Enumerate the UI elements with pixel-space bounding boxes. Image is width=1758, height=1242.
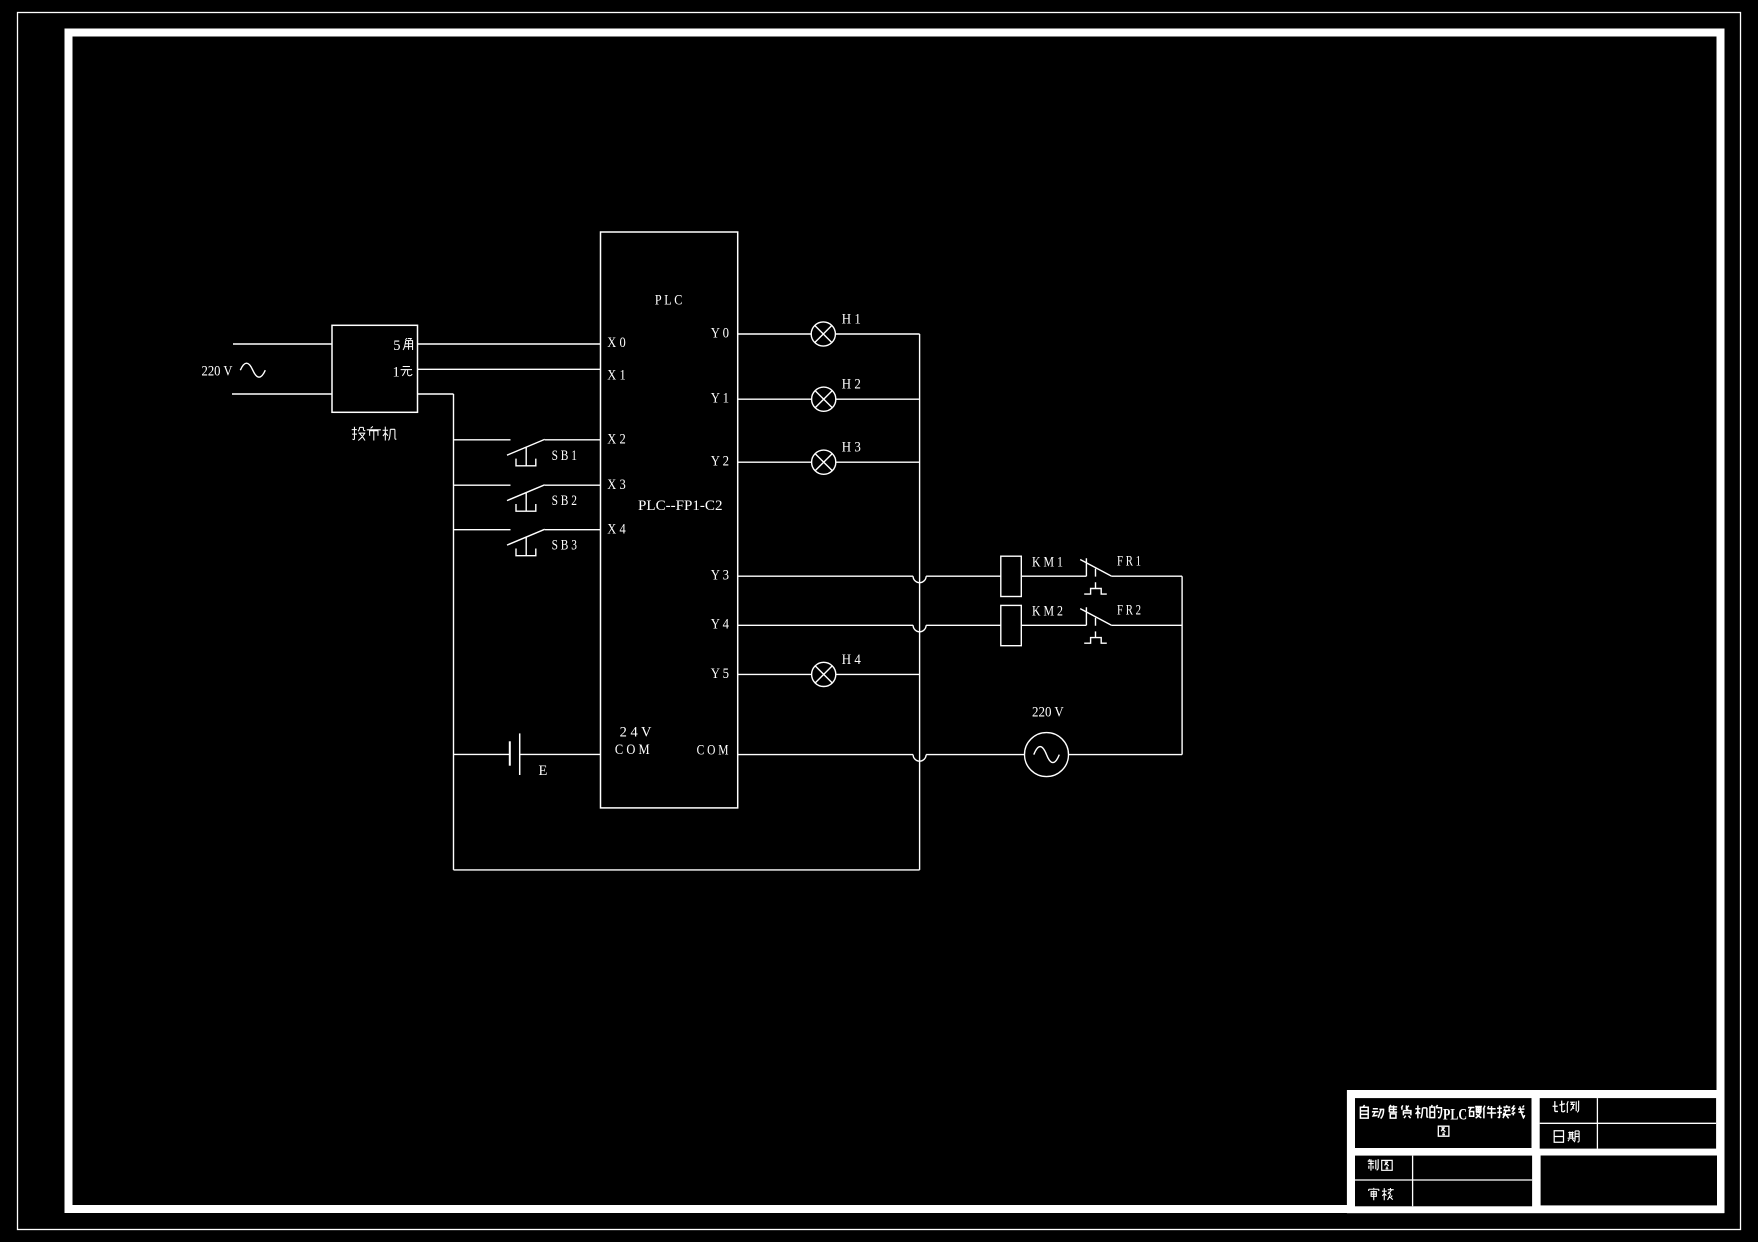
svg-text:Y 0: Y 0 [711,326,729,342]
svg-text:5: 5 [393,338,400,354]
svg-text:E: E [539,763,548,779]
svg-text:S B 1: S B 1 [552,448,577,464]
svg-text:K M 1: K M 1 [1032,554,1063,570]
svg-text:PLC--FP1-C2: PLC--FP1-C2 [638,498,723,514]
svg-text:Y 4: Y 4 [711,617,730,633]
svg-text:C O M: C O M [697,743,729,759]
svg-text:Y 3: Y 3 [711,568,729,584]
svg-text:X 1: X 1 [607,368,625,384]
svg-text:F R 1: F R 1 [1117,554,1141,570]
svg-text:K M 2: K M 2 [1032,604,1063,620]
svg-text:C O M: C O M [615,742,650,758]
svg-text:220 V: 220 V [1032,705,1064,721]
svg-text:H 3: H 3 [842,440,861,456]
svg-text:X 4: X 4 [607,521,626,537]
svg-text:F R 2: F R 2 [1117,603,1141,619]
svg-text:220 V: 220 V [202,364,233,380]
svg-text:H 4: H 4 [842,652,862,668]
svg-text:H 1: H 1 [842,312,861,328]
svg-text:Y 5: Y 5 [711,666,729,682]
svg-text:H 2: H 2 [842,377,861,393]
svg-text:1: 1 [393,365,400,381]
svg-text:PLC: PLC [1443,1107,1467,1124]
svg-text:X 2: X 2 [607,432,625,448]
svg-text:Y 1: Y 1 [711,391,729,407]
svg-text:S B 2: S B 2 [552,493,577,509]
svg-text:P L C: P L C [655,293,683,309]
svg-text:2 4 V: 2 4 V [620,725,652,741]
svg-text:X 3: X 3 [607,477,625,493]
svg-text:X 0: X 0 [607,335,625,351]
svg-text:Y 2: Y 2 [711,454,729,470]
svg-text:S B 3: S B 3 [552,538,577,554]
